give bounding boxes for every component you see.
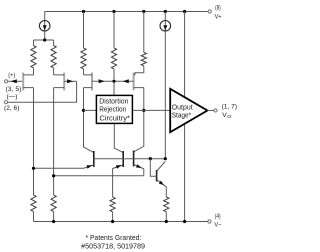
node rail-R5 bbox=[142, 10, 145, 13]
wire box output line bbox=[133, 109, 170, 111]
wire box left port bbox=[84, 109, 97, 111]
wire V+ to output stage bbox=[184, 12, 186, 98]
node box left port bbox=[82, 109, 85, 112]
wire output bbox=[207, 110, 213, 112]
transistor Q1 bbox=[93, 151, 95, 167]
transistor T2 bbox=[63, 73, 65, 91]
resistor R4 bbox=[113, 12, 115, 49]
svg-text:Output: Output bbox=[172, 104, 193, 111]
wire Q1 emitter bbox=[34, 167, 84, 169]
transistor Q3 bbox=[133, 151, 135, 167]
node rail-output-stage bbox=[183, 10, 186, 13]
wire R5 to T4 drain bbox=[135, 66, 144, 75]
svg-text:(2, 6): (2, 6) bbox=[4, 105, 19, 112]
svg-text:V+: V+ bbox=[215, 14, 222, 21]
node rail-R4 bbox=[112, 10, 115, 13]
transistor Q2 bbox=[122, 151, 124, 167]
wire V+ top rail bbox=[45, 11, 208, 13]
arrow T4 gate bbox=[123, 79, 129, 83]
resistor R8 bbox=[110, 197, 115, 212]
node rail-R3 bbox=[82, 10, 85, 13]
node T2col-lower bbox=[52, 174, 55, 177]
node output line junction bbox=[142, 109, 145, 112]
wire output stage to V- rail bbox=[184, 124, 186, 222]
resistor R5 bbox=[143, 12, 145, 53]
block distortion rejection circuitry bbox=[96, 95, 132, 123]
transistor T4 bbox=[133, 73, 135, 91]
wire I2 down to base node bbox=[164, 31, 166, 159]
current source I1 bbox=[44, 11, 46, 31]
terminal pin 8 bbox=[208, 10, 211, 13]
node rail-output-stage-V- bbox=[183, 220, 186, 223]
resistor R2 bbox=[51, 46, 56, 68]
node rail-R7 bbox=[52, 220, 55, 223]
node gate junction bbox=[112, 80, 115, 83]
wire Q3 emitter down bbox=[143, 169, 145, 176]
wire T3 source / Q1 collector bbox=[84, 88, 94, 153]
arrow T3 gate bbox=[99, 79, 105, 83]
node base-I2 bbox=[164, 157, 167, 160]
wire gate junction to box bbox=[113, 81, 115, 95]
svg-text:(1, 7): (1, 7) bbox=[222, 103, 238, 110]
wire +IN to T1 gate bbox=[8, 80, 23, 82]
node rail-R8 bbox=[111, 220, 114, 223]
resistor R7 bbox=[51, 195, 56, 212]
transistor Q4 bbox=[156, 170, 158, 182]
svg-text:Stage*: Stage* bbox=[172, 113, 192, 120]
wire T1 source down bbox=[33, 88, 35, 195]
svg-text:* Patents Granted:: * Patents Granted: bbox=[86, 233, 142, 242]
wire T2 source down bbox=[53, 88, 55, 195]
svg-text:(4): (4) bbox=[215, 213, 221, 220]
transistor T1 bbox=[22, 73, 24, 91]
svg-text:Circuitry*: Circuitry* bbox=[99, 113, 130, 122]
wire T4 source / Q3 collector bbox=[134, 88, 144, 152]
terminal +IN bbox=[5, 80, 8, 83]
resistor R3 bbox=[83, 12, 85, 49]
terminal pin 4 bbox=[208, 220, 211, 223]
resistor R1 bbox=[31, 46, 36, 68]
wire Q4 base bbox=[150, 159, 156, 177]
wire long lower bbox=[54, 175, 144, 177]
svg-text:V−: V− bbox=[214, 222, 221, 229]
wire Q4 emitter down bbox=[165, 187, 167, 197]
node rail-I2 bbox=[164, 10, 167, 13]
terminal VO bbox=[214, 109, 217, 112]
wire -IN to T2 gate bbox=[8, 81, 77, 102]
node I1 output junction bbox=[43, 38, 46, 41]
current source I2 bbox=[164, 11, 166, 31]
wire Q2 emitter down bbox=[112, 169, 114, 198]
wire shared base bbox=[94, 158, 166, 160]
node T1col-Q1emitter bbox=[32, 167, 35, 170]
resistor R9 bbox=[164, 197, 169, 212]
svg-text:(+): (+) bbox=[8, 72, 15, 79]
wire V- bottom rail bbox=[34, 221, 208, 223]
node base-Q4 bbox=[149, 157, 152, 160]
node rail-R9 bbox=[165, 220, 168, 223]
op-amp output stage U1 bbox=[170, 89, 207, 132]
wire box bottom / Q2 collector bbox=[114, 124, 123, 153]
svg-text:(8): (8) bbox=[215, 5, 221, 12]
svg-text:O: O bbox=[227, 114, 231, 120]
arrow T1 gate bbox=[11, 79, 17, 83]
resistor R6 bbox=[31, 195, 36, 212]
svg-text:(3, 5): (3, 5) bbox=[6, 86, 22, 93]
wire I1 to R1/R2 tops bbox=[34, 31, 54, 45]
arrow T2 gate bbox=[67, 79, 73, 83]
svg-text:(—): (—) bbox=[7, 94, 18, 101]
transistor T3 bbox=[91, 73, 93, 91]
svg-text:#5053718, 5019789: #5053718, 5019789 bbox=[81, 243, 145, 250]
terminal -IN bbox=[4, 101, 7, 104]
